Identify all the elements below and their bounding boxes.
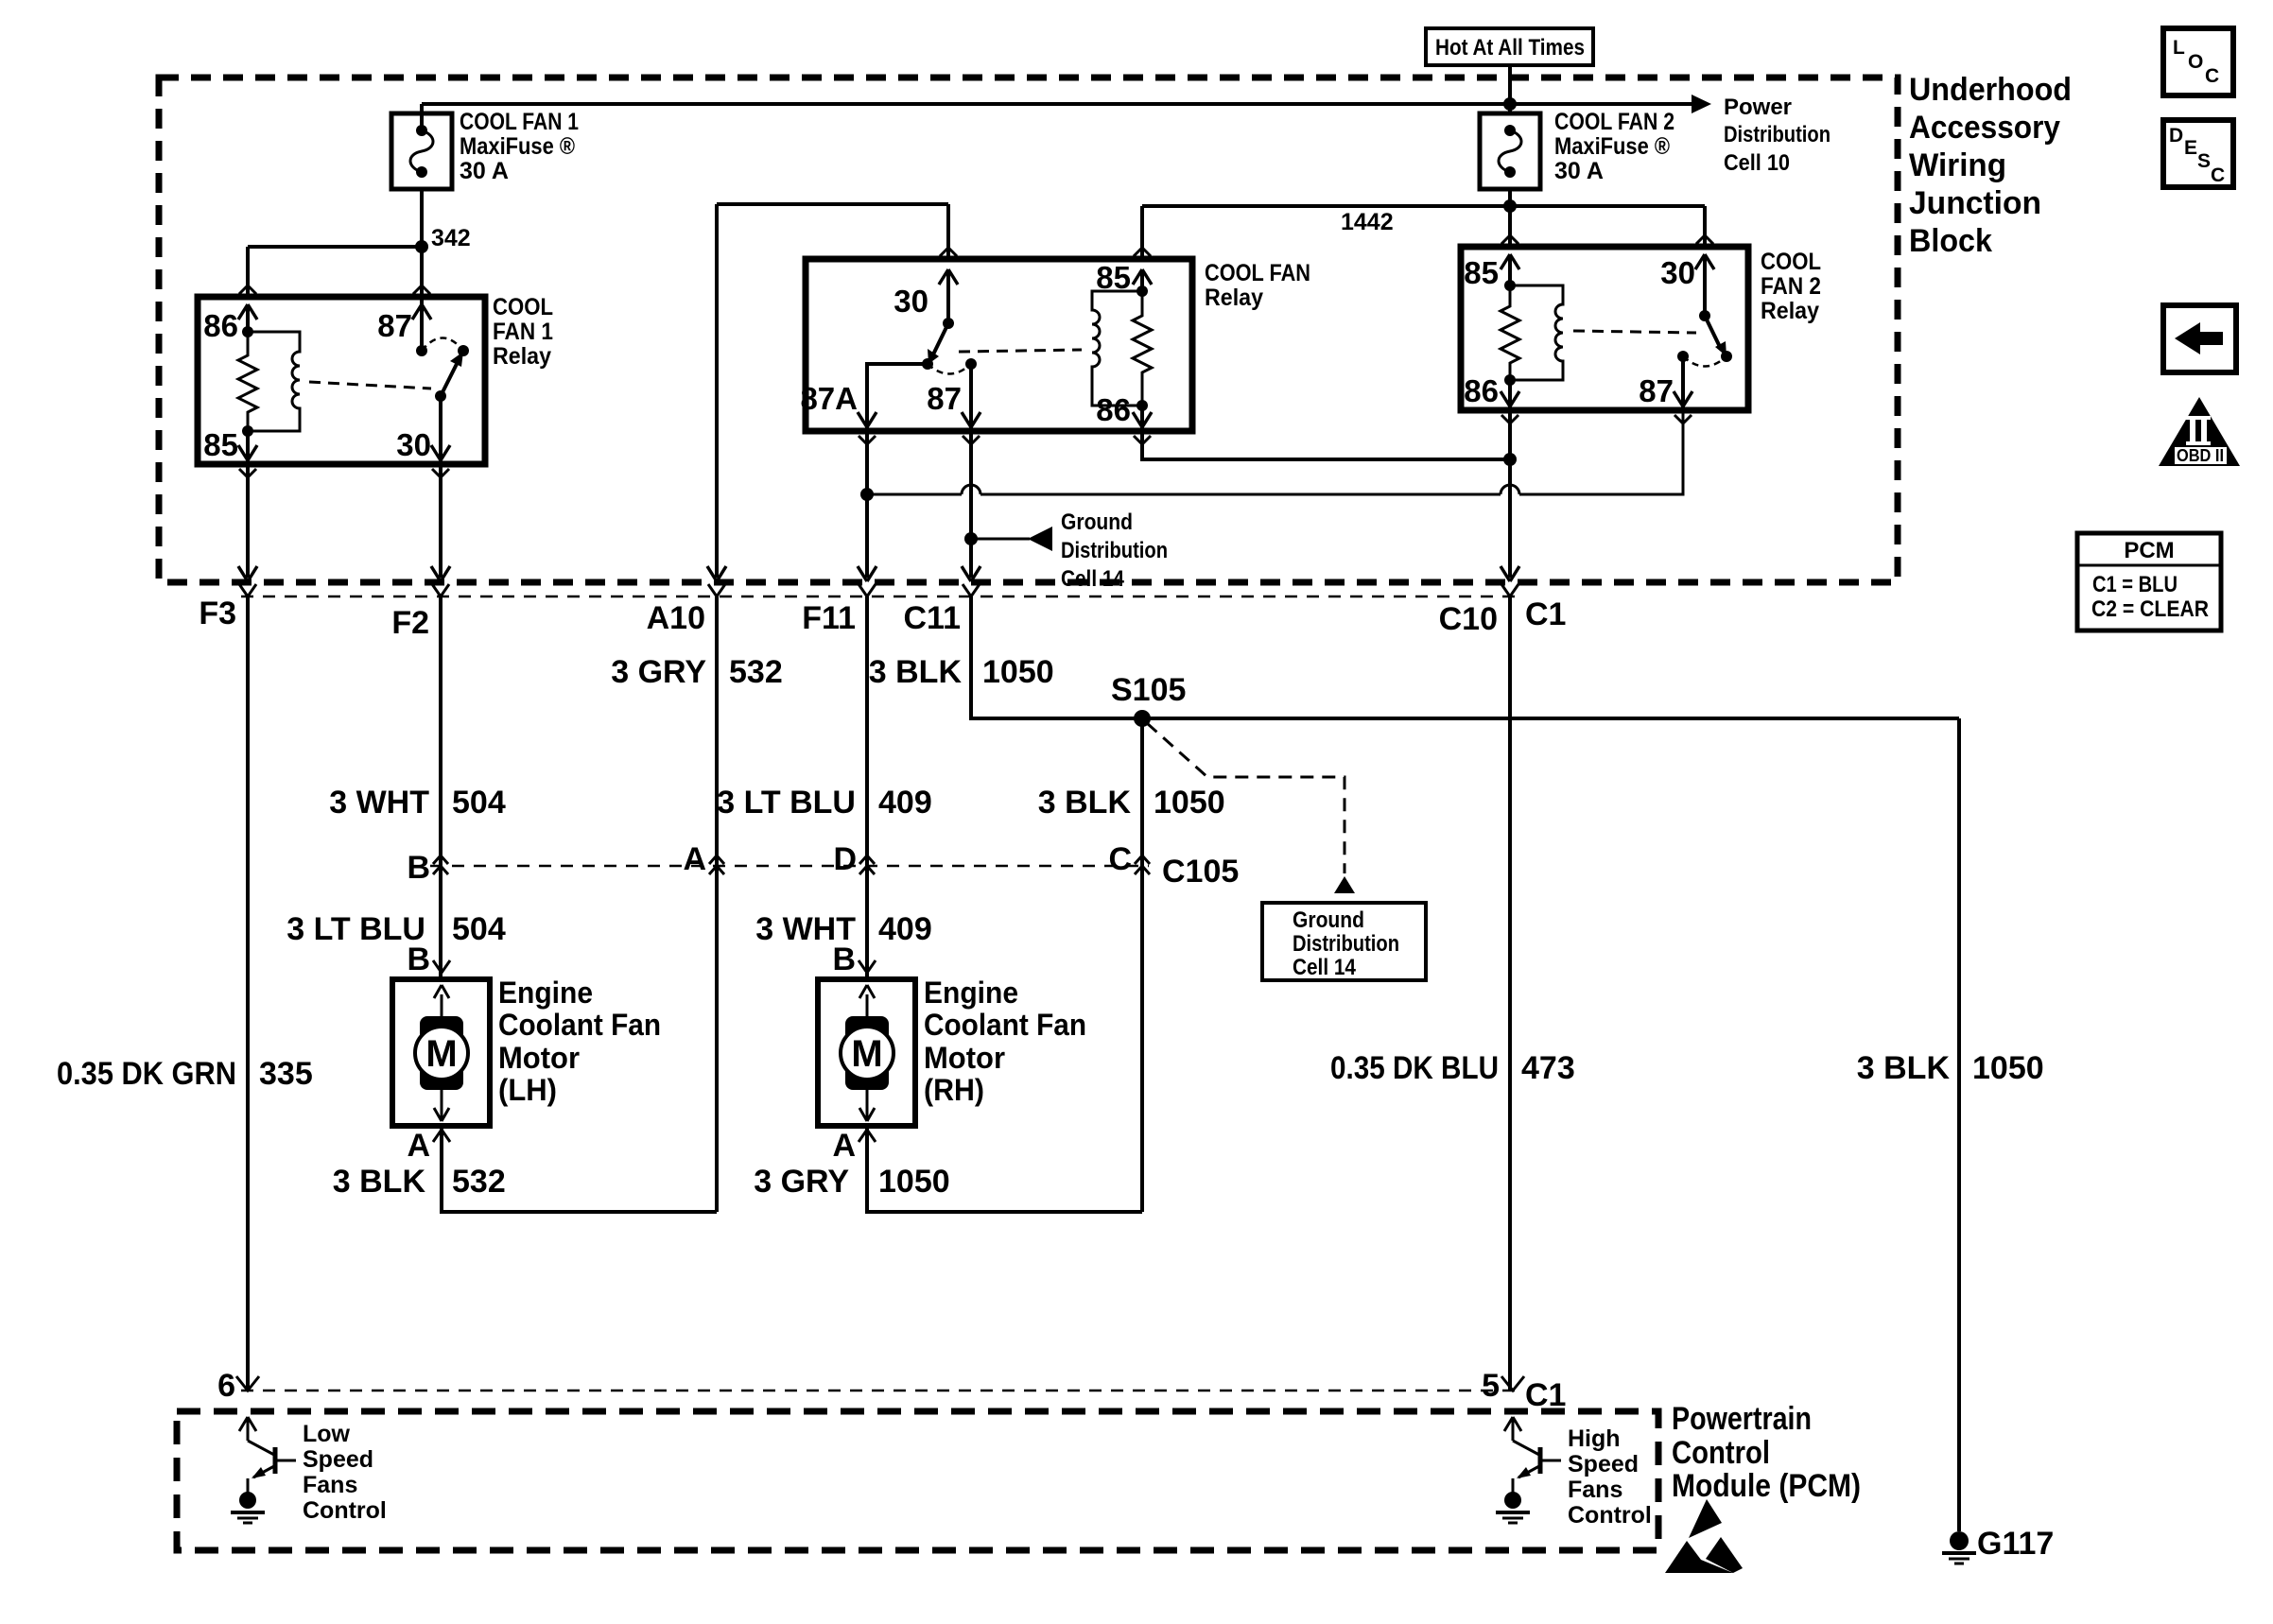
svg-text:Low: Low: [303, 1421, 351, 1447]
node relay3 coil top dot: [1504, 280, 1516, 291]
transistor Q2 high speed fans control: [1504, 1417, 1561, 1493]
connector chevron relay1 pin 30 bottom: [432, 469, 449, 477]
label A10: [647, 600, 705, 636]
node relay3 87 contact dot: [1677, 351, 1689, 362]
fuse COOL FAN 1 MaxiFuse 30A: [391, 104, 452, 189]
connector chevron PCM 5 C1: [1501, 1376, 1524, 1391]
label Engine Coolant Fan Motor RH: [924, 976, 1086, 1107]
wire to Ground Distribution reference: [971, 538, 1030, 541]
svg-text:Wiring: Wiring: [1909, 147, 2006, 183]
svg-text:3 BLK: 3 BLK: [1857, 1050, 1951, 1086]
svg-text:M: M: [851, 1033, 882, 1075]
svg-text:87A: 87A: [800, 381, 858, 416]
svg-text:Ground: Ground: [1061, 510, 1133, 535]
wire relay3 coil to switch dashed link: [1573, 331, 1696, 333]
svg-text:3 WHT: 3 WHT: [329, 785, 429, 821]
svg-text:O: O: [2188, 51, 2203, 73]
connector chevron F11: [859, 584, 876, 596]
label 3 GRY 532: [611, 654, 783, 690]
svg-text:Distribution: Distribution: [1724, 122, 1831, 147]
connector chevron C11: [963, 584, 980, 596]
svg-text:Control: Control: [1672, 1435, 1770, 1471]
svg-text:F3: F3: [199, 596, 236, 631]
svg-text:F2: F2: [391, 605, 429, 641]
svg-text:Cell 10: Cell 10: [1724, 150, 1790, 176]
label 6: [217, 1368, 235, 1404]
coil relay2mid winding: [1092, 291, 1142, 406]
label COOL FAN Relay: [1205, 260, 1310, 311]
label C1 top: [1525, 596, 1566, 632]
wire S105 down 3 BLK 1050: [1140, 718, 1144, 1212]
svg-text:30: 30: [1660, 255, 1695, 290]
pin 86 relay2mid: [1096, 392, 1152, 431]
connector chevron PCM 6: [236, 1376, 259, 1391]
connector chevron relay2mid 87A bottom: [859, 436, 876, 444]
label C105: [1162, 854, 1239, 890]
label C C105: [1108, 841, 1132, 877]
svg-text:C105: C105: [1162, 854, 1239, 890]
arrow A10 at junction block border: [707, 566, 726, 581]
coil relay3 winding: [1510, 285, 1563, 380]
svg-text:335: 335: [259, 1056, 313, 1092]
label 3 GRY 1050: [754, 1164, 949, 1200]
node relay1 coil bottom dot: [242, 425, 253, 437]
svg-text:409: 409: [878, 785, 932, 821]
label 3 WHT 409: [755, 911, 932, 947]
svg-text:S105: S105: [1111, 672, 1186, 708]
svg-text:Engine: Engine: [498, 976, 593, 1010]
label B motor LH: [407, 942, 430, 977]
label 3 LT BLU 409: [717, 785, 931, 821]
svg-text:1050: 1050: [1972, 1050, 2044, 1086]
node Hot At All Times box: [1426, 28, 1593, 65]
svg-text:1442: 1442: [1341, 209, 1394, 235]
svg-text:COOL FAN 2: COOL FAN 2: [1554, 109, 1674, 135]
node relay1 87 contact dot: [416, 345, 427, 356]
svg-text:FAN 2: FAN 2: [1761, 273, 1821, 300]
pin 87 relay3: [1639, 356, 1692, 410]
pin 85 relay1: [203, 427, 257, 464]
svg-text:High: High: [1568, 1425, 1621, 1452]
wire relay1 85 to F3: [246, 464, 250, 578]
connector chevron motor RH B: [859, 960, 876, 973]
svg-text:Power: Power: [1724, 95, 1792, 120]
node relay1 switch pivot dot: [435, 390, 446, 402]
arrow F3 at junction block border: [238, 566, 257, 581]
pin 30 relay3: [1660, 254, 1714, 316]
PCM dashed box Powertrain Control Module: [177, 1411, 1658, 1550]
svg-text:M: M: [425, 1033, 457, 1075]
connector chevron C105 D: [859, 855, 875, 874]
pin 30 relay2mid: [894, 204, 958, 323]
label Powertrain Control Module PCM: [1672, 1401, 1861, 1504]
connector chevron C105 C: [1135, 855, 1150, 874]
svg-text:Relay: Relay: [1205, 285, 1263, 311]
label 3 BLK 1050 mid: [1038, 785, 1225, 821]
wire relay1 30 to F2: [439, 464, 442, 578]
connector chevron relay2mid pin 30 top: [940, 248, 957, 256]
svg-text:Distribution: Distribution: [1293, 931, 1399, 957]
node relay1 coil top dot: [242, 326, 253, 337]
switch arm relay3: [1705, 316, 1726, 356]
svg-text:Junction: Junction: [1909, 185, 2041, 221]
svg-text:Motor: Motor: [924, 1041, 1005, 1075]
svg-text:C1: C1: [1525, 1377, 1566, 1413]
label C1 bottom: [1525, 1377, 1566, 1413]
junction block dashed border Underhood Accessory Wiring Junction Block: [159, 78, 1898, 582]
svg-text:Motor: Motor: [498, 1041, 580, 1075]
svg-text:30: 30: [894, 284, 928, 319]
svg-text:3 GRY: 3 GRY: [754, 1164, 849, 1200]
svg-text:(LH): (LH): [498, 1073, 557, 1107]
arrow F11 at junction block border: [858, 566, 876, 581]
arrow C11 at junction block border: [962, 566, 980, 581]
label 3 BLK 1050 top: [869, 654, 1054, 690]
label F3: [199, 596, 236, 631]
resistor relay1 internal: [238, 332, 257, 431]
node junction dot 87A bus: [860, 488, 874, 501]
node relay2mid coil bottom dot: [1136, 400, 1148, 411]
connector chevron motor LH A: [433, 1130, 450, 1142]
svg-text:0.35 DK BLU: 0.35 DK BLU: [1330, 1050, 1499, 1086]
svg-text:Engine: Engine: [924, 976, 1018, 1010]
pin 30 relay1: [396, 396, 450, 464]
pin 85 relay2mid: [1096, 206, 1152, 295]
svg-text:86: 86: [203, 308, 238, 343]
svg-text:504: 504: [452, 785, 506, 821]
label Engine Coolant Fan Motor LH: [498, 976, 661, 1107]
node junction dot hot bus: [1503, 97, 1517, 111]
arrow C10 at junction block border: [1501, 566, 1519, 581]
svg-text:D: D: [2169, 125, 2183, 147]
svg-text:G117: G117: [1977, 1526, 2054, 1562]
label A motor RH: [832, 1128, 856, 1164]
svg-text:504: 504: [452, 911, 506, 947]
svg-text:Underhood: Underhood: [1909, 72, 2072, 108]
wire S105 dashed reference to ground cell: [1147, 723, 1345, 873]
svg-text:C1: C1: [1525, 596, 1566, 632]
svg-text:6: 6: [217, 1368, 235, 1404]
ground PCM high side: [1496, 1492, 1530, 1523]
svg-text:Module (PCM): Module (PCM): [1672, 1468, 1861, 1504]
svg-text:473: 473: [1521, 1050, 1575, 1086]
svg-text:Powertrain: Powertrain: [1672, 1401, 1812, 1437]
svg-text:FAN 1: FAN 1: [493, 319, 553, 345]
wire relay2mid switch dashed arc: [928, 364, 971, 374]
label 0.35 DK GRN 335: [57, 1056, 313, 1092]
svg-text:87: 87: [927, 381, 962, 416]
svg-text:C10: C10: [1439, 601, 1498, 637]
svg-text:Control: Control: [1568, 1502, 1652, 1529]
connector chevron motor LH B: [433, 960, 450, 973]
label COOL FAN 2 MaxiFuse 30 A: [1554, 109, 1674, 184]
transistor Q1 low speed fans control: [239, 1417, 296, 1493]
connector chevron F3: [239, 584, 256, 596]
fuse COOL FAN 2 MaxiFuse 30A: [1480, 113, 1540, 189]
svg-text:0.35 DK GRN: 0.35 DK GRN: [57, 1056, 236, 1092]
svg-text:85: 85: [203, 427, 238, 462]
svg-text:Relay: Relay: [493, 343, 551, 370]
svg-text:3 LT BLU: 3 LT BLU: [286, 911, 425, 947]
node relay1 NC contact dot: [458, 345, 469, 356]
box Ground Distribution Cell 14: [1262, 903, 1426, 980]
label A motor LH: [407, 1128, 430, 1164]
connector chevron relay3 87 bottom: [1674, 415, 1692, 423]
pin 86 relay1: [203, 304, 257, 343]
connector row PCM fine dashed line: [241, 1390, 1524, 1392]
wire relay1 coil to switch dashed link: [309, 382, 431, 389]
svg-text:532: 532: [729, 654, 783, 690]
node junction dot 86 bus: [1503, 453, 1517, 466]
coil relay1 winding: [248, 332, 300, 431]
label C11: [904, 600, 962, 636]
node relay3 coil bottom dot: [1504, 374, 1516, 386]
svg-text:Ground: Ground: [1293, 907, 1364, 933]
svg-text:C2 = CLEAR: C2 = CLEAR: [2091, 596, 2209, 622]
svg-text:3 BLK: 3 BLK: [869, 654, 963, 690]
svg-text:87: 87: [377, 308, 412, 343]
svg-text:30 A: 30 A: [1554, 158, 1604, 184]
label COOL FAN 1 Relay: [493, 294, 553, 370]
node junction dot 1442: [1503, 199, 1517, 213]
wire relay2mid switch to coil dashed link: [959, 350, 1082, 352]
label B C105: [407, 850, 430, 886]
label 5: [1482, 1368, 1500, 1404]
svg-text:C1 = BLU: C1 = BLU: [2092, 572, 2178, 597]
relay K1 COOL FAN 1 Relay box: [198, 297, 485, 464]
node splice S105: [1134, 710, 1151, 727]
label circuit 1442: [1341, 209, 1394, 235]
label S105: [1111, 672, 1186, 708]
label circuit 342: [431, 225, 471, 251]
svg-text:B: B: [832, 942, 856, 977]
svg-text:5: 5: [1482, 1368, 1500, 1404]
node relay2mid coil top dot: [1136, 285, 1148, 297]
svg-text:85: 85: [1464, 255, 1499, 290]
label Ground Distribution Cell 14: [1061, 510, 1168, 592]
svg-text:Relay: Relay: [1761, 298, 1819, 324]
wire 342 branch to relay1: [248, 247, 422, 295]
arrow Ground Distribution reference: [1028, 527, 1052, 551]
connector chevron A10: [708, 584, 725, 596]
label 0.35 DK BLU 473: [1330, 1050, 1575, 1086]
ground G117: [1942, 1531, 1976, 1564]
wire relay2mid 87A to F11: [865, 431, 869, 578]
svg-text:342: 342: [431, 225, 471, 251]
relay K2 COOL FAN Relay box: [806, 259, 1192, 431]
node junction dot C11 ground branch: [964, 532, 978, 545]
icon OBD II triangle: [2159, 397, 2240, 466]
svg-text:OBD II: OBD II: [2177, 446, 2224, 465]
svg-text:1050: 1050: [878, 1164, 950, 1200]
label A C105: [683, 841, 706, 877]
wire relay2mid 87 to C11: [969, 431, 973, 578]
svg-text:A: A: [683, 841, 706, 877]
svg-text:Speed: Speed: [1568, 1451, 1639, 1477]
label 3 BLK 1050 right: [1857, 1050, 2044, 1086]
connector chevron relay2mid 86 bottom: [1134, 436, 1151, 444]
node relay2mid 30 contact dot: [943, 318, 954, 329]
svg-text:C: C: [2205, 65, 2219, 87]
wire relay3 switch dashed arc: [1683, 356, 1726, 367]
node relay3 30 contact dot: [1699, 310, 1710, 321]
label 3 LT BLU 504: [286, 911, 506, 947]
wire F11 to motor RH: [865, 596, 869, 979]
connector chevron relay1 pin 86 top: [239, 285, 256, 294]
label B motor RH: [832, 942, 856, 977]
connector chevron relay2mid pin 85 top: [1134, 248, 1151, 256]
svg-text:(RH): (RH): [924, 1073, 984, 1107]
svg-text:Fans: Fans: [303, 1472, 357, 1498]
label COOL FAN 2 Relay: [1761, 249, 1821, 324]
svg-text:Coolant Fan: Coolant Fan: [924, 1008, 1086, 1042]
svg-text:85: 85: [1096, 260, 1131, 295]
node relay2mid 87A contact dot: [922, 358, 933, 370]
motor M1 Engine Coolant Fan Motor LH: [392, 979, 490, 1126]
wire right 3 BLK 1050 to G117: [1957, 718, 1961, 1531]
wire motor LH A return to A10: [442, 1126, 717, 1212]
wire C10 0.35 DK BLU 473: [1508, 596, 1512, 1391]
label Power Distribution Cell 10: [1724, 95, 1831, 176]
svg-text:F11: F11: [802, 600, 856, 636]
wire top power bus to Power Distribution: [422, 102, 1694, 106]
wire A10 3 GRY 532: [715, 596, 719, 1212]
svg-text:Accessory: Accessory: [1909, 110, 2060, 146]
connector chevron relay3 pin 85 top: [1501, 235, 1518, 244]
svg-text:Hot At All Times: Hot At All Times: [1435, 35, 1585, 60]
switch arm relay1: [441, 352, 463, 396]
wire hot feed vertical B+: [1508, 65, 1512, 113]
pin 85 relay3: [1464, 254, 1519, 290]
connector chevron relay3 pin 30 top: [1696, 235, 1713, 244]
pin 87 relay2mid: [927, 364, 980, 431]
svg-text:3 GRY: 3 GRY: [611, 654, 706, 690]
svg-text:86: 86: [1464, 373, 1499, 408]
label High Speed Fans Control: [1568, 1425, 1652, 1529]
wire A10 riser inside junction block: [717, 204, 948, 578]
connector chevron F2: [432, 584, 449, 596]
svg-text:409: 409: [878, 911, 932, 947]
label Low Speed Fans Control: [303, 1421, 387, 1524]
svg-text:S: S: [2197, 150, 2211, 172]
svg-text:30: 30: [396, 427, 431, 462]
svg-text:MaxiFuse ®: MaxiFuse ®: [460, 133, 576, 160]
icon ESD sensitive device symbol: [1665, 1499, 1743, 1573]
connector chevron relay2mid 87 bottom: [963, 436, 980, 444]
svg-text:COOL: COOL: [1761, 249, 1821, 275]
wire fuse1 to circuit 342: [420, 189, 424, 247]
connector chevron motor RH A: [859, 1130, 876, 1142]
svg-text:1050: 1050: [1154, 785, 1225, 821]
label 3 BLK 532: [333, 1164, 506, 1200]
svg-text:3 LT BLU: 3 LT BLU: [717, 785, 856, 821]
node relay2mid 87 contact dot: [965, 358, 977, 370]
wire circuit 1442 bus: [1142, 206, 1705, 247]
wire F3 0.35 DK GRN 335: [246, 596, 250, 1391]
svg-text:A: A: [407, 1128, 430, 1164]
wire F2 to motor LH: [439, 596, 442, 979]
svg-text:86: 86: [1096, 392, 1131, 427]
svg-text:COOL FAN: COOL FAN: [1205, 260, 1310, 286]
connector chevron relay1 pin 85 bottom: [239, 469, 256, 477]
wire relay2mid 86 to relay3 86 bus: [1142, 431, 1510, 459]
svg-text:3 BLK: 3 BLK: [333, 1164, 426, 1200]
wire relay1 switch dashed arc: [422, 338, 463, 352]
wire 87A to relay3 87 bus with hops: [867, 410, 1683, 494]
svg-text:Block: Block: [1909, 223, 1992, 259]
svg-text:E: E: [2184, 137, 2197, 159]
wire relay3 86 to C10: [1508, 410, 1512, 578]
label Underhood Accessory Wiring Junction Block: [1909, 72, 2072, 259]
svg-text:87: 87: [1639, 373, 1674, 408]
icon back arrow box: [2163, 305, 2236, 372]
svg-text:B: B: [407, 942, 430, 977]
svg-text:Coolant Fan: Coolant Fan: [498, 1008, 661, 1042]
node junction dot 342: [415, 240, 428, 253]
pin 87A relay2mid: [800, 364, 928, 431]
label COOL FAN 1 MaxiFuse 30 A: [460, 109, 579, 184]
arrow F2 at junction block border: [431, 566, 450, 581]
svg-text:MaxiFuse ®: MaxiFuse ®: [1554, 133, 1671, 160]
svg-text:C: C: [1108, 841, 1132, 877]
icon LOC box: [2163, 28, 2233, 95]
label F2: [391, 605, 429, 641]
arrow to Power Distribution Cell 10: [1692, 95, 1711, 113]
svg-text:COOL: COOL: [493, 294, 553, 320]
svg-text:PCM: PCM: [2124, 538, 2174, 563]
connector chevron C105 B: [433, 855, 448, 874]
label C10: [1439, 601, 1498, 637]
wire C11 3 BLK 1050: [971, 596, 1959, 718]
pin 87 relay1: [377, 297, 431, 351]
resistor relay2mid internal: [1133, 291, 1152, 406]
svg-text:Control: Control: [303, 1497, 387, 1524]
svg-text:Distribution: Distribution: [1061, 538, 1168, 563]
node relay3 NO contact dot: [1721, 351, 1732, 362]
svg-text:Fans: Fans: [1568, 1477, 1622, 1503]
svg-text:Cell 14: Cell 14: [1061, 566, 1125, 592]
svg-text:C11: C11: [904, 600, 962, 636]
connector chevron relay1 pin 87 top: [413, 285, 430, 294]
svg-text:C: C: [2211, 164, 2225, 186]
pin 86 relay3: [1464, 373, 1519, 410]
ground PCM low side: [231, 1492, 265, 1523]
motor M2 Engine Coolant Fan Motor RH: [818, 979, 915, 1126]
label G117: [1977, 1526, 2054, 1562]
connector chevron C10 C1: [1501, 584, 1518, 596]
connector chevron C105 A: [709, 855, 724, 874]
label D C105: [833, 841, 857, 877]
svg-text:D: D: [833, 841, 857, 877]
icon DESC box: [2163, 120, 2233, 187]
connector row C2 fine dashed line: [241, 596, 1524, 598]
label 3 WHT 504: [329, 785, 506, 821]
svg-text:3 BLK: 3 BLK: [1038, 785, 1132, 821]
svg-text:A10: A10: [647, 600, 705, 636]
connector row C105 fine dashed line: [430, 865, 1149, 868]
svg-text:B: B: [407, 850, 430, 886]
svg-text:Cell 14: Cell 14: [1293, 955, 1357, 980]
svg-text:L: L: [2173, 37, 2185, 59]
arrow ground cell reference: [1334, 876, 1355, 893]
svg-text:532: 532: [452, 1164, 506, 1200]
svg-text:Speed: Speed: [303, 1446, 373, 1473]
relay K3 COOL FAN 2 Relay box: [1461, 247, 1748, 410]
connector chevron relay3 86 bottom: [1501, 415, 1518, 423]
label F11: [802, 600, 856, 636]
svg-text:1050: 1050: [982, 654, 1054, 690]
resistor relay3 internal: [1501, 285, 1519, 380]
